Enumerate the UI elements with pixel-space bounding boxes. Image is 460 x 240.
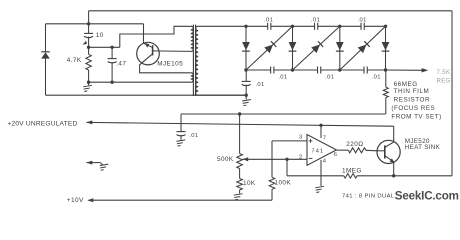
Q2 base wire (377, 150, 385, 152)
U1 minus sign (309, 157, 313, 159)
svg-text:.01: .01 (325, 74, 334, 80)
wire +20V rail (86, 122, 393, 126)
node top rail col2 (291, 25, 294, 28)
capacitor C2 .47 (108, 47, 117, 82)
label C7 value .01 (278, 74, 287, 80)
node top rail col4 (384, 25, 387, 28)
diode D6 vertical (336, 26, 344, 70)
wire secondary bottom lead (198, 94, 246, 96)
capacitor C1 10 (84, 33, 93, 37)
label U1 pin6 (334, 152, 338, 158)
wire +10V rail (89, 199, 273, 201)
wire R3 to R4 (239, 169, 241, 179)
wire emitter drop (143, 24, 145, 44)
wire left loop vertical (above D1) (45, 24, 47, 52)
node C2 bottom (110, 81, 113, 84)
transformer T1 primary upper winding (191, 26, 194, 51)
node C2 top (110, 46, 113, 49)
ground at C3 (240, 95, 250, 106)
svg-text:+10V: +10V (67, 197, 84, 204)
ground at pin4 (313, 186, 323, 193)
Q1 base wire (153, 50, 191, 53)
svg-text:100K: 100K (275, 179, 292, 186)
wire pin3 to R5 (272, 141, 307, 177)
svg-text:(FOCUS RES: (FOCUS RES (391, 105, 435, 112)
node feedback tap (285, 158, 288, 161)
label C6 value .01 (357, 17, 366, 23)
wire multiplier top rail (246, 25, 386, 27)
resistor R4 10K (237, 179, 243, 191)
node bottom rail col1 (244, 68, 247, 71)
wire pin4 (320, 160, 322, 186)
capacitor C8 .01 (bottom row) (318, 67, 321, 74)
wire node A riser (120, 26, 191, 47)
node emitter junction (392, 174, 395, 177)
wire multiplier bottom rail (246, 69, 386, 71)
U1 plus sign (309, 139, 313, 143)
capacitor C4 .01 (top row) (268, 23, 271, 30)
wire col1 to C3 (245, 70, 247, 81)
wire node A to C2 (89, 46, 120, 48)
ground under R4 (232, 190, 242, 200)
capacitor C3 .01 (242, 81, 251, 85)
wire emitter node to right edge (394, 175, 452, 177)
node B (bottom of R1) (87, 81, 90, 84)
svg-text:.47: .47 (116, 61, 126, 68)
wire bottom loop (46, 94, 247, 96)
svg-text:.01: .01 (372, 74, 381, 80)
svg-text:4: 4 (323, 159, 327, 165)
wire U1 output (336, 149, 348, 151)
label R2 line2 (394, 88, 430, 95)
svg-text:RESISTOR: RESISTOR (394, 96, 430, 103)
Q2 emitter with arrow (385, 156, 395, 176)
label R5 value 100K (275, 179, 292, 186)
wire bottom primary return (89, 81, 191, 83)
arrow +20V (86, 120, 92, 124)
label C5 value .01 (311, 17, 320, 23)
label U1 pin2 (299, 154, 303, 160)
svg-text:.01: .01 (278, 74, 287, 80)
transformer T1 secondary winding (196, 26, 199, 95)
svg-text:3: 3 (299, 135, 303, 141)
note 741 package (342, 193, 395, 199)
ground at C10 (175, 135, 185, 147)
svg-text:7: 7 (323, 135, 327, 141)
label U1 pin4 (323, 159, 327, 165)
wire secondary top lead (198, 25, 246, 27)
svg-text:741 : 8 PIN DUAL: 741 : 8 PIN DUAL (342, 193, 395, 199)
label R7 value 220 (346, 141, 363, 148)
wire top rail (HV return) (89, 10, 452, 12)
Q1 collector (140, 54, 191, 73)
svg-text:.01: .01 (255, 82, 264, 88)
svg-text:1MEG: 1MEG (342, 167, 362, 174)
svg-text:4.7K: 4.7K (67, 57, 82, 64)
transformer T1 core (193, 25, 195, 96)
arrow HV output (422, 68, 429, 72)
label Q2 MJE520 (405, 138, 430, 145)
polarity mark C1 (83, 41, 87, 45)
label R1 value 4.7K (67, 57, 82, 64)
label C10 value .01 (189, 133, 198, 139)
node top rail col1 (244, 25, 247, 28)
wire sense to R3 (239, 114, 241, 154)
node A (base drive node) (87, 46, 90, 49)
label U1 pin7 (323, 135, 327, 141)
node J1 (top of C1 chain) (87, 22, 90, 25)
wire feedback run (287, 175, 344, 177)
label R2 line5 (391, 113, 441, 120)
svg-text:MJE105: MJE105 (157, 61, 183, 68)
node R3 top (238, 112, 241, 115)
resistor R7 220 (348, 148, 366, 153)
op-amp U1 741 body (307, 135, 336, 166)
label Q2 HEAT SINK (405, 144, 441, 151)
wire HV output (386, 69, 422, 71)
wire chassis stub (86, 163, 103, 166)
svg-text:FROM TV SET): FROM TV SET) (391, 113, 441, 120)
diode D5 diagonal (293, 26, 340, 70)
Q1 emitter with arrow (144, 43, 153, 48)
svg-text:10: 10 (96, 32, 104, 39)
diode D8 vertical (382, 26, 390, 70)
wire right-edge return (451, 11, 453, 176)
node C3 ground junction (245, 94, 248, 97)
Q2 collector (385, 142, 394, 147)
label R2 line3 (394, 96, 430, 103)
diode D4 vertical (289, 26, 297, 70)
svg-text:2: 2 (299, 154, 303, 160)
svg-text:.01: .01 (189, 133, 198, 139)
label U1 pin3 (299, 135, 303, 141)
capacitor C7 .01 (bottom row) (271, 67, 274, 74)
resistor R2 66MEG (383, 70, 388, 114)
label output 7.5K (437, 70, 451, 76)
svg-text:HEAT SINK: HEAT SINK (405, 144, 441, 151)
label C2 value .47 (116, 61, 126, 68)
label +20V UNREGULATED (8, 121, 78, 128)
wire emitter rail (46, 23, 144, 25)
label C8 value .01 (325, 74, 334, 80)
ground chassis (98, 164, 108, 171)
capacitor C9 .01 (bottom row) (364, 67, 367, 74)
diode D1 (41, 52, 50, 59)
wire feedback drop (286, 159, 288, 176)
label R3 value 500K (217, 156, 234, 163)
svg-text:741: 741 (311, 148, 324, 154)
svg-text:.01: .01 (264, 17, 273, 23)
label U1 741 (311, 148, 324, 154)
wire C1 to node A (88, 37, 90, 48)
wire C3 to ground node (245, 85, 247, 96)
svg-text:10K: 10K (243, 180, 256, 187)
wire wiper to pin2 (243, 158, 307, 160)
label R2 line4 (391, 105, 435, 112)
diode D2 vertical (242, 26, 250, 70)
wire left loop vertical (below D1) (45, 59, 47, 96)
node bottom rail col4 (384, 68, 387, 71)
svg-text:SeekIC.com: SeekIC.com (395, 190, 459, 203)
wire top-rail drop to C1 (88, 11, 90, 34)
svg-text:6: 6 (334, 152, 338, 158)
capacitor C6 .01 (top row) (361, 23, 364, 30)
diode D7 diagonal (340, 26, 386, 70)
wire +20V drop to Q2 collector (393, 126, 395, 142)
label R6 value 1MEG (342, 167, 362, 174)
capacitor C5 .01 (top row) (315, 23, 318, 30)
label R4 value 10K (243, 180, 256, 187)
label C1 value 10 (96, 32, 104, 39)
label R2 line1 (394, 81, 418, 88)
Q1 base bar (152, 45, 154, 55)
wire focus sense rail (181, 113, 386, 115)
wire R5 to +10V rail (271, 189, 273, 200)
diode D3 diagonal (246, 26, 293, 70)
arrow +10V (87, 198, 93, 202)
svg-text:7.5K: 7.5K (437, 70, 451, 76)
svg-text:500K: 500K (217, 156, 234, 163)
svg-text:THIN FILM: THIN FILM (394, 88, 430, 95)
svg-text:220Ω: 220Ω (346, 141, 363, 148)
wiper arrow R3 (243, 157, 249, 161)
label C3 value .01 (255, 82, 264, 88)
wire pin7 supply (320, 126, 322, 139)
resistor R1 4.7K (86, 47, 91, 82)
node top rail col3 (338, 25, 341, 28)
svg-text:.01: .01 (357, 17, 366, 23)
transistor Q1 MJE105 body (137, 42, 160, 65)
Q2 base bar (384, 145, 386, 158)
ground under R1 (81, 82, 91, 92)
arrow chassis (86, 161, 92, 165)
watermark SeekIC.com (395, 190, 459, 203)
svg-text:REG: REG (437, 78, 451, 84)
svg-text:.01: .01 (311, 17, 320, 23)
wire R7 to Q2 base (366, 149, 377, 152)
label +10V (67, 197, 84, 204)
node pin7 on +20V (319, 124, 322, 127)
node bottom rail col3 (338, 68, 341, 71)
label output REG (437, 78, 451, 84)
resistor R3 500K (237, 154, 243, 169)
capacitor C10 .01 (sense bypass) (177, 114, 186, 136)
label C9 value .01 (372, 74, 381, 80)
node bottom rail col2 (291, 68, 294, 71)
transistor Q2 MJE520 body (377, 140, 400, 163)
resistor R6 1MEG (344, 174, 357, 179)
label C4 value .01 (264, 17, 273, 23)
resistor R5 100K (269, 177, 275, 189)
svg-text:+20V UNREGULATED: +20V UNREGULATED (8, 121, 78, 128)
transformer T1 primary lower winding (191, 73, 193, 82)
label Q1 MJE105 (157, 61, 183, 68)
wire R6 to emitter node (357, 175, 394, 177)
